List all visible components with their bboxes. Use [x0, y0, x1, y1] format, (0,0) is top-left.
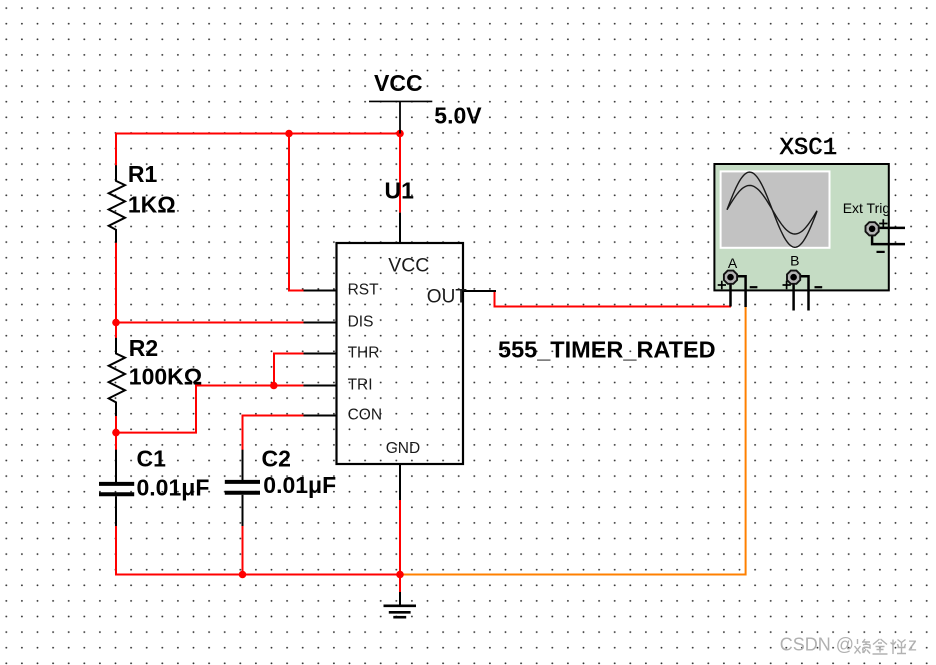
svg-text:CON: CON [348, 406, 382, 423]
svg-text:555_TIMER_RATED: 555_TIMER_RATED [498, 336, 716, 362]
svg-text:U1: U1 [385, 178, 415, 204]
svg-text:DIS: DIS [348, 313, 374, 330]
svg-text:CSDN @: CSDN @ [780, 634, 854, 654]
svg-text:RST: RST [348, 281, 380, 298]
svg-text:VCC: VCC [388, 254, 429, 276]
svg-text:TRI: TRI [348, 376, 373, 393]
svg-text:0.01μF: 0.01μF [263, 472, 336, 498]
svg-text:GND: GND [386, 440, 420, 457]
svg-text:C2: C2 [262, 446, 291, 472]
svg-text:B: B [790, 253, 799, 269]
svg-text:z: z [908, 634, 917, 654]
svg-text:R1: R1 [128, 161, 158, 187]
svg-text:THR: THR [348, 344, 380, 361]
svg-text:0.01μF: 0.01μF [137, 475, 210, 501]
svg-text:Ext Trig: Ext Trig [843, 200, 890, 216]
svg-text:XSC1: XSC1 [780, 135, 838, 162]
svg-text:A: A [728, 255, 738, 271]
svg-text:C1: C1 [137, 446, 167, 472]
svg-text:OUT: OUT [427, 287, 468, 308]
svg-text:1KΩ: 1KΩ [128, 192, 176, 218]
svg-text:VCC: VCC [374, 70, 423, 96]
svg-text:R2: R2 [129, 335, 158, 361]
svg-text:100KΩ: 100KΩ [129, 364, 202, 390]
svg-text:5.0V: 5.0V [434, 103, 482, 129]
